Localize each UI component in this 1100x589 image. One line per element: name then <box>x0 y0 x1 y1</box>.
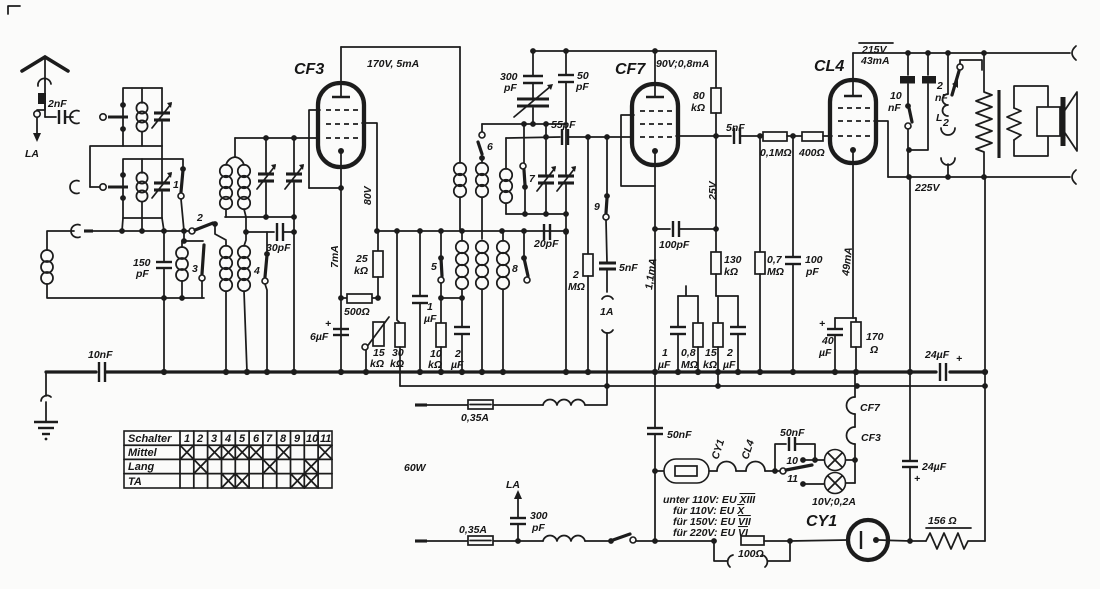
resistor 0.7M <box>755 133 784 372</box>
tube CF7 anode plate <box>646 51 664 97</box>
capacitor 2uF b <box>722 296 746 372</box>
fuse 0.35A row1 <box>461 400 543 424</box>
ground bus <box>46 370 985 373</box>
wire mains row1 <box>415 403 468 406</box>
svg-text:µF: µF <box>722 359 736 371</box>
transformer B coil right <box>238 232 250 372</box>
antenna plug jack <box>38 78 51 104</box>
svg-text:25: 25 <box>355 253 368 265</box>
row wire y231 <box>84 228 189 234</box>
svg-text:Schalter: Schalter <box>128 433 172 445</box>
svg-text:10nF: 10nF <box>88 349 113 361</box>
lamp 1 <box>825 450 846 471</box>
tuned block 2 frame <box>120 159 162 218</box>
svg-text:24µF: 24µF <box>924 349 950 361</box>
svg-text:1: 1 <box>662 347 668 359</box>
svg-text:nF: nF <box>888 102 901 114</box>
svg-text:pF: pF <box>805 266 819 278</box>
svg-text:24µF: 24µF <box>921 461 947 473</box>
switch 6 <box>478 124 493 161</box>
capacitor 2nF tone <box>909 53 948 150</box>
wire riser 910 <box>909 177 911 460</box>
svg-text:10: 10 <box>786 455 798 467</box>
capacitor 55pF <box>506 119 576 145</box>
trimmer capacitor d <box>557 124 576 372</box>
svg-text:50nF: 50nF <box>780 427 805 439</box>
svg-text:25V: 25V <box>707 180 719 201</box>
svg-text:2: 2 <box>572 269 579 281</box>
svg-text:kΩ: kΩ <box>354 265 368 277</box>
label 25V <box>707 180 719 201</box>
svg-text:+: + <box>956 353 962 365</box>
capacitor 20pF <box>533 224 559 250</box>
wire block1 right to block2 <box>161 146 163 159</box>
svg-text:kΩ: kΩ <box>703 359 717 371</box>
grid wire CF7 <box>568 134 632 140</box>
terminal circle input 2 <box>100 184 106 190</box>
svg-text:2nF: 2nF <box>47 98 67 110</box>
tube CF3 cathode <box>338 148 344 372</box>
antenna <box>22 57 68 80</box>
speaker magnet <box>1037 107 1060 136</box>
ground symbol <box>34 372 58 440</box>
node y124 line <box>482 121 566 127</box>
node rail A 170V <box>341 47 460 70</box>
svg-text:5: 5 <box>431 261 437 273</box>
node bracket 1uF 0.8M <box>678 286 698 296</box>
jack socket <box>70 111 79 124</box>
svg-text:µF: µF <box>657 359 671 371</box>
node rail B 90V <box>530 48 716 70</box>
wire CL4 cathode split <box>835 317 856 319</box>
svg-text:80: 80 <box>693 90 705 102</box>
thick link bar 2 <box>90 185 128 188</box>
variable capacitor oscillator main <box>514 84 553 124</box>
jack loop <box>71 225 80 238</box>
fuse 0.35A row2 <box>459 524 518 545</box>
resistor 15k heater <box>703 296 723 386</box>
svg-text:kΩ: kΩ <box>724 266 738 278</box>
transformer A coil right <box>235 157 250 232</box>
capacitor 1uF <box>657 296 686 372</box>
wire CY1 to 156 <box>907 538 926 544</box>
transformer A coil left <box>220 157 235 217</box>
label voltage selector <box>663 494 756 539</box>
svg-text:MΩ: MΩ <box>568 281 585 293</box>
node y231 line <box>374 228 569 234</box>
tube CF3 anode plate <box>332 47 350 97</box>
svg-text:2: 2 <box>936 80 943 92</box>
svg-text:10: 10 <box>890 90 902 102</box>
capacitor 50nF lamps <box>775 427 815 471</box>
resistor 0.8M <box>681 296 703 372</box>
choke row1 <box>543 386 607 405</box>
node mains line y386 <box>400 383 988 389</box>
wire to CY1 <box>790 540 848 541</box>
variable capacitor trimmer b <box>285 138 304 217</box>
resistor 170 <box>851 318 884 372</box>
svg-text:5nF: 5nF <box>619 262 638 274</box>
tube CL4 anode plate <box>844 53 862 96</box>
svg-text:0,35A: 0,35A <box>459 524 487 536</box>
svg-text:11: 11 <box>320 433 331 445</box>
svg-text:5: 5 <box>239 433 246 445</box>
capacitor 100pF anode <box>785 136 823 372</box>
svg-text:11: 11 <box>787 473 798 485</box>
label LA <box>25 148 39 160</box>
transformer secondary winding <box>1007 108 1021 140</box>
wire plug to 2nF <box>45 104 56 117</box>
capacitor 24uF bus <box>924 349 962 381</box>
svg-text:LA: LA <box>25 148 39 160</box>
oscillator coil A top <box>454 163 466 231</box>
switch mains <box>608 534 714 544</box>
svg-text:1: 1 <box>427 301 433 313</box>
terminal circle input 1 <box>100 114 106 120</box>
oscillator coil C top <box>500 138 512 214</box>
variable capacitor block1 <box>152 88 172 146</box>
transformer output primary <box>976 53 992 177</box>
svg-text:3: 3 <box>192 263 198 275</box>
wire right riser 985 <box>984 177 986 541</box>
variable capacitor block2 <box>152 159 172 218</box>
svg-text:kΩ: kΩ <box>370 358 384 370</box>
svg-text:4: 4 <box>224 433 231 445</box>
tube CF3 envelope <box>318 83 364 167</box>
svg-text:9: 9 <box>594 201 600 213</box>
svg-text:6µF: 6µF <box>310 331 329 343</box>
transformer core <box>997 90 1000 158</box>
heater CF3 <box>847 427 881 460</box>
svg-text:LA: LA <box>506 479 520 491</box>
svg-text:300: 300 <box>530 510 548 522</box>
capacitor 2uF <box>450 295 470 372</box>
wire transformer A bottom y217 <box>225 214 297 220</box>
switch tone 10nF <box>905 84 912 177</box>
label CF3 <box>294 61 324 78</box>
svg-text:400Ω: 400Ω <box>798 147 825 159</box>
wire CF7 anode out <box>676 133 719 139</box>
capacitor 5nF coupling <box>716 122 762 144</box>
label CL4 <box>814 58 844 75</box>
resistor 100 <box>711 536 793 560</box>
label 1.1mA <box>643 258 659 291</box>
wire CF3 screen 80V <box>362 123 377 231</box>
tube CF7 envelope <box>632 84 678 165</box>
switch 9 <box>594 137 610 220</box>
capacitor 10nF tone <box>888 53 915 114</box>
switch lamp selector <box>780 465 812 474</box>
svg-text:TA: TA <box>128 476 142 488</box>
oscillator coil A bottom <box>456 231 468 298</box>
capacitor 100pF cathode <box>652 221 719 251</box>
svg-text:43mA: 43mA <box>860 55 890 67</box>
resistor 2M <box>568 137 593 372</box>
switch 7 <box>520 124 536 214</box>
resistor 10k <box>428 283 462 372</box>
svg-text:15: 15 <box>705 347 717 359</box>
svg-text:µF: µF <box>423 313 437 325</box>
svg-text:MΩ: MΩ <box>681 359 698 371</box>
svg-text:170: 170 <box>866 331 884 343</box>
svg-text:9: 9 <box>294 433 301 445</box>
svg-text:Mittel: Mittel <box>128 447 158 459</box>
resistor 0.1M <box>760 132 802 159</box>
switch 1 <box>162 159 186 231</box>
svg-text:5nF: 5nF <box>726 122 745 134</box>
speaker cone <box>1063 92 1077 151</box>
inductor L2 <box>936 53 955 177</box>
svg-text:20pF: 20pF <box>533 238 559 250</box>
switch tone selector <box>952 60 982 95</box>
wire rail A to oscillator coil A <box>459 47 461 163</box>
svg-text:40: 40 <box>821 335 834 347</box>
svg-text:2: 2 <box>196 433 203 445</box>
arrow LA row2 <box>506 479 522 517</box>
oscillator coil B bottom <box>476 241 488 372</box>
capacitor 40uF <box>818 318 843 372</box>
svg-text:kΩ: kΩ <box>390 358 404 370</box>
svg-text:3: 3 <box>211 433 217 445</box>
tube CL4 envelope <box>830 80 876 163</box>
svg-text:pF: pF <box>531 522 545 534</box>
coil 3 block <box>176 231 203 301</box>
svg-text:50nF: 50nF <box>667 429 692 441</box>
svg-text:60W: 60W <box>404 462 427 474</box>
svg-text:CF7: CF7 <box>860 402 881 414</box>
tube CF7 grids <box>640 111 672 137</box>
table cross marks <box>180 445 332 488</box>
svg-text:10V;0,2A: 10V;0,2A <box>812 496 856 508</box>
svg-text:0,1MΩ: 0,1MΩ <box>760 147 792 159</box>
switch 8 <box>512 231 530 283</box>
thick link bar 1 <box>108 115 128 118</box>
tube CY1 <box>848 520 910 560</box>
svg-text:0,35A: 0,35A <box>461 412 489 424</box>
label 49mA <box>840 247 855 278</box>
wire block1 left down <box>90 146 123 187</box>
svg-text:1: 1 <box>184 433 190 445</box>
svg-text:130: 130 <box>724 254 742 266</box>
transformer secondary loop <box>1014 86 1048 156</box>
svg-text:kΩ: kΩ <box>691 102 705 114</box>
svg-text:+: + <box>819 318 825 330</box>
capacitor 30pF <box>243 223 294 254</box>
resistor 500 <box>338 294 381 318</box>
heater CF7 <box>847 372 881 427</box>
svg-text:1A: 1A <box>600 306 613 318</box>
trimmer capacitor c <box>537 124 556 214</box>
coil antenna 1 <box>136 88 147 146</box>
heater CY1 <box>709 438 746 471</box>
bus junction dots <box>161 369 988 375</box>
svg-text:Lang: Lang <box>128 461 155 473</box>
resistor 400 <box>798 132 832 159</box>
choke row2 <box>518 535 609 541</box>
rheostat 15k <box>362 317 389 372</box>
svg-text:30pF: 30pF <box>266 242 291 254</box>
resistor 80k <box>691 51 721 229</box>
svg-text:100pF: 100pF <box>659 239 690 251</box>
svg-text:156 Ω: 156 Ω <box>928 515 957 527</box>
svg-text:100: 100 <box>805 254 823 266</box>
svg-text:2: 2 <box>942 117 949 129</box>
resistor 25k <box>354 231 383 298</box>
capacitor 300pF <box>500 51 543 99</box>
wire switch2 to transformer B <box>215 224 226 240</box>
label 60W <box>404 462 427 474</box>
resistor 30k <box>390 231 405 386</box>
label CF7 <box>615 61 646 78</box>
terminal circle LA <box>34 111 40 117</box>
label 7mA <box>329 245 341 268</box>
svg-text:90V;0,8mA: 90V;0,8mA <box>656 58 709 70</box>
svg-text:4: 4 <box>253 265 260 277</box>
capacitor 50nF barretter <box>647 372 692 541</box>
switch 2 <box>189 212 218 234</box>
svg-text:+: + <box>325 318 331 330</box>
tube CF3 grids <box>326 110 358 138</box>
corner mark <box>8 6 20 14</box>
capacitor 150pF <box>133 231 172 372</box>
svg-text:500Ω: 500Ω <box>344 306 370 318</box>
svg-text:µF: µF <box>818 347 832 359</box>
svg-text:CF3: CF3 <box>294 61 324 78</box>
node bracket 15k 2uF <box>716 295 738 297</box>
svg-text:1: 1 <box>173 179 179 191</box>
lamp 2 <box>825 473 846 494</box>
oscillator coil B top <box>476 158 488 239</box>
svg-text:6: 6 <box>487 141 493 153</box>
svg-text:0,8: 0,8 <box>681 347 696 359</box>
grid wire CF3 y138 <box>235 135 318 141</box>
tube CL4 grids <box>838 108 870 136</box>
tube CL4 cathode <box>850 147 856 318</box>
svg-text:2: 2 <box>196 212 203 224</box>
svg-text:80V: 80V <box>362 185 374 205</box>
svg-text:+: + <box>914 473 920 485</box>
node y214 line <box>506 211 566 217</box>
oscillator coil C bottom <box>497 231 509 372</box>
svg-text:6: 6 <box>253 433 260 445</box>
wire trimmer b to bus <box>291 217 297 372</box>
resistor 156 <box>926 515 985 549</box>
svg-text:CY1: CY1 <box>806 513 837 530</box>
contact 11 <box>787 473 824 487</box>
heater CL4 <box>739 438 783 474</box>
wire mains row2 <box>415 539 468 542</box>
svg-text:8: 8 <box>512 263 518 275</box>
label 10V 0.2A <box>812 496 856 508</box>
switch 5 <box>431 231 444 283</box>
switch 4 <box>253 232 270 372</box>
svg-text:0,7: 0,7 <box>767 254 783 266</box>
svg-text:Ω: Ω <box>869 344 878 356</box>
wire CF3 cathode bracket <box>309 185 344 191</box>
capacitor 300pF row2 <box>510 510 548 544</box>
jumper link 100 ohm <box>714 541 790 567</box>
svg-text:225V: 225V <box>914 182 941 194</box>
svg-text:pF: pF <box>575 81 589 93</box>
wire CF3 grid3 <box>309 110 320 188</box>
arrow to LA <box>33 118 41 142</box>
svg-text:MΩ: MΩ <box>767 266 784 278</box>
svg-text:2: 2 <box>726 347 733 359</box>
svg-text:170V, 5mA: 170V, 5mA <box>367 58 419 70</box>
svg-text:CF7: CF7 <box>615 61 646 78</box>
wire transformer A top to grid line <box>234 138 236 157</box>
capacitor 2nF <box>47 98 73 124</box>
capacitor 10nF bus <box>88 349 113 382</box>
wire CF7 cathode bracket <box>621 115 655 186</box>
fuse 1A <box>600 296 613 386</box>
node 225V line <box>888 170 1076 194</box>
wire CL4 screen <box>874 121 888 177</box>
svg-text:8: 8 <box>280 433 287 445</box>
svg-text:CF3: CF3 <box>861 432 881 444</box>
svg-text:CL4: CL4 <box>814 58 844 75</box>
barretter EU tube <box>652 459 717 483</box>
table Schalter <box>124 431 332 488</box>
svg-text:für 220V: EU VI: für 220V: EU VI <box>673 527 749 539</box>
wire lamps to heater chain <box>846 457 858 483</box>
tuned block 1 frame <box>120 88 162 146</box>
drops block2 to row <box>122 218 164 231</box>
svg-text:pF: pF <box>135 268 149 280</box>
loop antenna <box>41 231 204 298</box>
capacitor 1uF osc <box>412 231 437 372</box>
node rail C 215V <box>853 43 1076 67</box>
wire plug to LA terminal <box>37 104 45 110</box>
svg-text:7mA: 7mA <box>329 245 341 268</box>
tube CF7 cathode <box>652 148 658 372</box>
svg-text:L: L <box>936 112 942 124</box>
svg-text:100Ω: 100Ω <box>738 548 764 560</box>
capacitor 50pF <box>558 51 589 124</box>
jack socket 2 <box>70 181 79 194</box>
svg-text:55pF: 55pF <box>551 119 576 131</box>
resistor 130k <box>711 229 742 296</box>
variable capacitor trimmer a <box>257 138 276 217</box>
transformer B coil left <box>220 241 232 372</box>
contact 10 <box>786 455 824 467</box>
svg-text:10: 10 <box>306 433 319 445</box>
capacitor 5nF osc <box>599 220 638 292</box>
svg-text:7: 7 <box>266 433 273 445</box>
capacitor 6uF <box>310 318 349 343</box>
coil antenna 2 <box>136 159 147 218</box>
capacitor 24uF b <box>902 461 947 541</box>
switch 3 <box>192 245 205 298</box>
label CY1 <box>806 513 837 530</box>
svg-text:pF: pF <box>503 82 517 94</box>
